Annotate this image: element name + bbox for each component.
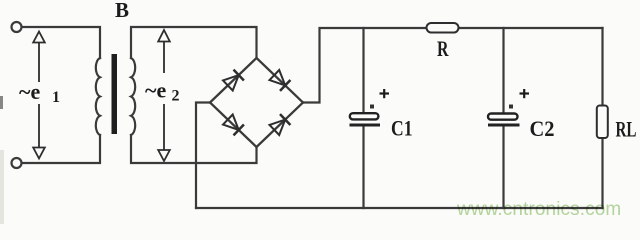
svg-text:C1: C1 xyxy=(391,116,413,141)
svg-text:2: 2 xyxy=(172,88,180,105)
wire primary bottom xyxy=(22,135,100,163)
arrow e1 measure xyxy=(33,32,45,159)
terminal J1 (top-left input) xyxy=(12,22,22,32)
svg-text:B: B xyxy=(115,0,129,22)
plus sign C2 xyxy=(520,89,530,98)
transformer B primary coil xyxy=(96,58,100,135)
wire C2 branch xyxy=(502,28,504,113)
plus sign C1 xyxy=(380,89,390,98)
svg-text:www.cntronics.com: www.cntronics.com xyxy=(456,199,621,220)
wire right edge down to RL xyxy=(601,28,603,208)
wire secondary top to bridge AC1 xyxy=(131,27,257,58)
paper noise shading xyxy=(0,96,3,109)
wire bottom rail (DC-) xyxy=(196,207,603,209)
svg-text:C2: C2 xyxy=(530,116,555,141)
capacitor C1 plates xyxy=(350,105,381,126)
terminal J2 (bottom-left input) xyxy=(12,158,22,168)
diode D3 (left to bottom) xyxy=(223,115,244,136)
resistor R (series, pill box on top rail) xyxy=(427,23,459,33)
bridge arm bottom-right xyxy=(257,103,304,148)
arrow e2 measure xyxy=(158,30,170,161)
resistor RL (load box) xyxy=(597,106,608,139)
wire secondary bottom / AC2 to bridge bottom vertex xyxy=(131,135,257,163)
svg-text:RL: RL xyxy=(616,117,637,142)
diode D2 (top to right) xyxy=(270,70,291,91)
bridge arm top-right xyxy=(257,58,304,103)
wire C1 branch xyxy=(362,28,364,113)
diode D1 (left to top) xyxy=(223,70,244,91)
diode D4 (bottom to right) xyxy=(270,114,291,135)
wire bridge right vertex (DC+) to top rail xyxy=(303,28,603,103)
svg-text:~e: ~e xyxy=(145,78,166,103)
transformer B secondary coil xyxy=(131,58,135,135)
bridge arm left-bottom xyxy=(210,103,257,148)
svg-text:1: 1 xyxy=(52,89,60,106)
wire bridge left vertex (DC-) to bottom rail xyxy=(196,103,210,209)
bridge arm left-top xyxy=(210,58,257,103)
svg-text:R: R xyxy=(437,36,449,61)
transformer core xyxy=(112,54,118,134)
svg-text:~e: ~e xyxy=(19,79,40,104)
capacitor C2 plates xyxy=(488,105,520,126)
wire primary top xyxy=(22,27,100,58)
